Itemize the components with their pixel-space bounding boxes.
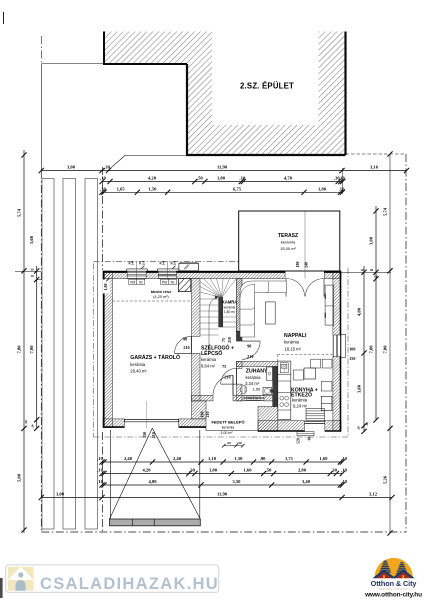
svg-text:,30: ,30 [189, 468, 195, 473]
svg-text:1,80 m²: 1,80 m² [224, 310, 236, 314]
svg-text:ZUHANY: ZUHANY [246, 369, 268, 375]
svg-text:2,80: 2,80 [298, 468, 307, 473]
svg-text:10: 10 [30, 274, 34, 278]
svg-text:3,16: 3,16 [370, 165, 379, 170]
svg-text:,10: ,10 [100, 187, 106, 192]
label GARAZS + TAROLO [130, 353, 180, 374]
shower WC fixture [240, 385, 246, 394]
shower room west wall upper [236, 362, 242, 369]
dashed boundary living-kitchen [277, 355, 333, 362]
svg-text:tároló rész: tároló rész [151, 289, 171, 294]
window dimension labels 100 150 east [349, 346, 355, 361]
svg-text:1,80: 1,80 [209, 468, 218, 473]
wardrobe on east wall [325, 285, 334, 325]
svg-text:,50: ,50 [197, 176, 203, 181]
svg-text:1,69: 1,69 [319, 456, 328, 461]
svg-text:240: 240 [132, 260, 135, 265]
east middle dimension chain (3,00 / 7,00) [369, 206, 379, 423]
dashed site line east of building [346, 153, 407, 155]
svg-text:,10: ,10 [341, 479, 347, 484]
neighbouring building thick outline [103, 32, 346, 156]
door hall-shower size labels 75 210 [222, 364, 231, 379]
terrace double door swing [286, 279, 324, 297]
svg-text:90: 90 [247, 344, 251, 349]
extension line from house top to chains [341, 271, 391, 273]
PM 90 tag garage window 2 [161, 279, 177, 284]
dining chair south-east [321, 381, 332, 391]
svg-text:kerámia: kerámia [224, 305, 236, 309]
svg-text:1,10: 1,10 [208, 456, 217, 461]
east window outer sill [341, 334, 346, 357]
driveway kerb bar [110, 519, 201, 526]
wall between garage and hall lower part [192, 353, 201, 401]
svg-text:3,00: 3,00 [369, 236, 374, 245]
east wall upper segment [333, 271, 341, 335]
svg-text:75: 75 [222, 338, 226, 342]
north wall middle segment [176, 271, 285, 279]
terrace door size labels 180 240 rotated [295, 262, 308, 269]
garage window 2 outer sill [157, 261, 179, 279]
svg-text:30: 30 [30, 268, 34, 272]
svg-text:90: 90 [183, 336, 187, 341]
svg-text:4,20: 4,20 [148, 176, 157, 181]
back door step labels 120 60 rotated [296, 437, 311, 444]
hall south wall mid segment [233, 395, 244, 401]
svg-text:210: 210 [205, 412, 210, 418]
svg-text:10: 10 [374, 275, 378, 279]
svg-text:100: 100 [349, 346, 355, 351]
label KAMRA [222, 300, 238, 315]
door garage-hall size labels 90 210 [183, 336, 190, 350]
svg-text:3,50: 3,50 [232, 479, 241, 484]
coffee table [265, 302, 275, 324]
stair direction arrow [209, 295, 219, 352]
door garage to hall with swing arc [175, 336, 192, 353]
label TERASZ [278, 233, 298, 251]
kitchen sink [280, 363, 288, 373]
door hall to shower with swing arc [221, 368, 237, 384]
dimension row 3 (1,65 / 1,50 / 6,75 / 1,80) [99, 187, 345, 195]
eaves dashed outline around house [93, 262, 348, 437]
svg-text:75: 75 [222, 364, 226, 369]
svg-text:7,00: 7,00 [369, 345, 374, 354]
storage height label 1,80 in west wall [103, 278, 110, 293]
PM 90 tag garage window 1 [129, 279, 145, 284]
svg-text:90: 90 [171, 280, 175, 284]
sofa corner unit [240, 281, 286, 337]
svg-text:3,00: 3,00 [67, 165, 76, 170]
svg-text:3,00 m²: 3,00 m² [220, 431, 233, 435]
svg-text:6,75: 6,75 [233, 187, 242, 192]
svg-text:,30: ,30 [331, 468, 337, 473]
dimension row 1 (3,00 / ,30 / 11,90 / 3,16) [39, 165, 409, 173]
svg-text:90: 90 [139, 280, 143, 284]
svg-text:1,80: 1,80 [103, 284, 108, 291]
svg-text:CSALADIHAZAK.HU: CSALADIHAZAK.HU [40, 575, 219, 593]
svg-text:kerámia: kerámia [201, 357, 217, 362]
svg-text:5,74: 5,74 [382, 207, 387, 216]
south wall garage east segment and porch west pier [179, 401, 206, 428]
PM 90 tag shower window [247, 396, 261, 401]
svg-text:210: 210 [247, 354, 253, 359]
svg-text:1,50: 1,50 [253, 387, 262, 392]
svg-text:11,90: 11,90 [217, 492, 228, 497]
label ZUHANY [245, 369, 268, 392]
driveway splay left leg [110, 428, 153, 519]
svg-text:GARÁZS + TÁROLÓ: GARÁZS + TÁROLÓ [130, 353, 180, 361]
dining chair north-east [322, 359, 332, 368]
svg-text:210: 210 [228, 337, 232, 343]
back door steps inside [306, 409, 325, 421]
otthon and city logo [364, 558, 422, 599]
label tarolo resz [151, 289, 171, 299]
svg-text:150: 150 [349, 356, 355, 361]
svg-text:4,70: 4,70 [284, 176, 293, 181]
svg-text:7,00: 7,00 [29, 345, 34, 354]
neighbouring building 2.SZ. EPULET hatched body [104, 30, 346, 155]
svg-text:www.otthon-city.hu: www.otthon-city.hu [364, 592, 422, 599]
driveway side edge east [199, 430, 201, 519]
dining chair north-west [311, 359, 321, 368]
svg-text:1,65: 1,65 [117, 187, 126, 192]
svg-text:,10: ,10 [31, 424, 35, 428]
svg-text:90: 90 [255, 397, 259, 401]
shower room west wall lower [236, 384, 242, 401]
svg-text:PM: PM [130, 280, 135, 284]
svg-text:kerámia: kerámia [281, 240, 296, 245]
stair straight treads [200, 299, 219, 335]
wall between garage and hall upper part [192, 279, 201, 337]
north wall between garage windows [146, 271, 158, 279]
svg-text:,30: ,30 [365, 422, 369, 426]
kitchen south wall west block [258, 407, 278, 432]
dimension row C (4,80 / 3,50 / 3,40) [97, 479, 347, 487]
kitchen hob burners [280, 396, 289, 406]
garage window 2 [158, 271, 176, 278]
vertical connector at right end of top rows [342, 168, 344, 194]
west dimension chain (5,74 / 7,80 / 5,00) [17, 150, 27, 533]
svg-text:,30: ,30 [24, 420, 28, 424]
stair newel wall [219, 297, 223, 327]
svg-text:Otthon & City: Otthon & City [371, 579, 418, 588]
east inner dimension chain (4,00 / 3,60) [357, 266, 367, 434]
svg-text:kerámia: kerámia [292, 398, 308, 403]
svg-text:,10: ,10 [97, 479, 103, 484]
driveway side edge west [109, 430, 111, 519]
east tiny ,10 ,30 labels [357, 268, 378, 430]
hall south wall east segment under shower [264, 395, 278, 401]
shower east wall / kitchen back wall [273, 367, 278, 407]
fence strip 2 [63, 179, 76, 530]
boundary dash-dot along house west face [102, 167, 104, 532]
label SZELFOGO + LEPCSO [201, 343, 234, 368]
svg-text:8,64 m²: 8,64 m² [201, 363, 216, 368]
svg-text:60: 60 [227, 441, 231, 445]
svg-text:11,90: 11,90 [217, 165, 228, 170]
svg-text:18,15 m²: 18,15 m² [285, 346, 302, 351]
svg-text:TERASZ: TERASZ [278, 233, 298, 239]
svg-text:60: 60 [307, 437, 311, 441]
garage door width labels 250 210 rotated [142, 432, 156, 439]
living room east window [333, 335, 340, 357]
dining table [304, 368, 316, 379]
svg-text:3,60: 3,60 [29, 235, 34, 244]
dimension row 2 (4,20 / ,50 / 1,80 / ,10 / 4,70) [99, 176, 345, 184]
svg-text:3,40: 3,40 [302, 479, 311, 484]
svg-text:3,00: 3,00 [56, 492, 65, 497]
north wall east segment [324, 271, 341, 279]
svg-text:,10: ,10 [100, 176, 106, 181]
label FEDETT BELEPO [211, 420, 244, 435]
svg-text:kerámia: kerámia [284, 340, 300, 345]
svg-text:FEDETT BELÉPŐ: FEDETT BELÉPŐ [211, 420, 244, 425]
svg-text:7,80: 7,80 [17, 345, 22, 354]
svg-text:15,00 m²: 15,00 m² [280, 246, 296, 251]
svg-text:,10: ,10 [341, 456, 347, 461]
svg-text:2.SZ. ÉPÜLET: 2.SZ. ÉPÜLET [240, 82, 294, 91]
svg-text:210: 210 [142, 260, 145, 265]
stair kamra side treads [223, 317, 237, 327]
svg-text:5,74: 5,74 [17, 208, 22, 217]
svg-text:kerámia: kerámia [246, 375, 262, 380]
svg-text:,10: ,10 [339, 187, 345, 192]
svg-text:29,40 m²: 29,40 m² [130, 368, 147, 373]
kamra door labels 75 210 rotated [222, 337, 232, 343]
svg-text:kerámia: kerámia [222, 426, 235, 430]
garage door leaf [124, 419, 178, 422]
svg-text:LÉPCSŐ: LÉPCSŐ [201, 349, 222, 357]
entry door size labels 100 210 rotated [200, 412, 211, 418]
svg-text:4,80: 4,80 [148, 479, 157, 484]
kitchen counter band [278, 361, 291, 419]
west tiny ,30 ,10 labels and extension lines [15, 268, 41, 429]
terrace outline [239, 211, 340, 271]
east outer dimension labels on long site line (5,74 / 7,80 / 5,26) [382, 207, 392, 484]
svg-text:2,40: 2,40 [173, 456, 182, 461]
svg-text:9,24 m²: 9,24 m² [293, 404, 308, 409]
dining chair west [294, 370, 304, 380]
svg-text:,10: ,10 [341, 468, 347, 473]
label NAPPALI [284, 333, 307, 351]
svg-text:1,80: 1,80 [217, 176, 226, 181]
svg-text:210: 210 [183, 345, 189, 350]
svg-text:NAPPALI: NAPPALI [284, 333, 307, 339]
plot boundary dash-dot east [405, 154, 407, 532]
svg-text:210: 210 [151, 432, 156, 438]
label KONYHA + ETKEZO [291, 387, 318, 408]
north wall west segment (garage) [103, 271, 127, 279]
back door outside step [297, 432, 314, 436]
svg-text:2,40: 2,40 [124, 456, 133, 461]
svg-text:PM: PM [162, 280, 167, 284]
svg-text:7,80: 7,80 [382, 345, 387, 354]
svg-text:250: 250 [142, 432, 147, 438]
pillar on north wall [179, 262, 199, 271]
partition wall hall-living dark lintel [236, 331, 242, 341]
svg-text:,10: ,10 [339, 176, 345, 181]
partition wall hall-living upper [236, 279, 242, 332]
shower window to porch [244, 396, 264, 401]
small porch step dimension 60/120 [222, 441, 245, 448]
covered entry porch outline [206, 428, 258, 432]
east wall lower segment [333, 357, 341, 432]
svg-text:,30: ,30 [104, 165, 110, 170]
storage area dashed divider [113, 300, 192, 302]
svg-text:Szabadéntalálom a hasznos feat: Szabadéntalálom a hasznos featuos [377, 587, 409, 590]
svg-text:4,20: 4,20 [142, 468, 151, 473]
svg-text:10: 10 [360, 268, 364, 272]
shower tray [266, 367, 272, 380]
top-left margin mark [3, 12, 5, 24]
svg-text:120: 120 [296, 438, 300, 444]
svg-text:120: 120 [237, 441, 242, 445]
plot boundary dash-dot west [40, 36, 42, 532]
garage window 1 [127, 271, 146, 278]
stair winder treads fan [200, 279, 236, 298]
svg-text:,10: ,10 [239, 176, 245, 181]
kitchen south wall east segment [325, 421, 341, 432]
terrace center line [304, 212, 306, 279]
svg-text:3,24 m²: 3,24 m² [245, 381, 260, 386]
door hall-living size labels 90 210 [247, 344, 253, 360]
csaladihazak.hu house icon [8, 567, 34, 591]
svg-text:210: 210 [224, 375, 230, 380]
svg-text:180: 180 [295, 262, 300, 268]
svg-text:5,00: 5,00 [17, 473, 22, 482]
svg-text:,90: ,90 [260, 456, 266, 461]
svg-text:KAMRA: KAMRA [222, 300, 238, 305]
svg-text:kerámia: kerámia [130, 362, 146, 367]
svg-text:210: 210 [174, 260, 177, 265]
hall south wall west segment [192, 395, 214, 401]
svg-text:PM: PM [248, 397, 253, 401]
svg-text:1,80: 1,80 [318, 187, 327, 192]
driveway splay right leg [152, 428, 200, 519]
shower washbasin [263, 387, 273, 394]
plot boundary dash-dot south [41, 531, 406, 533]
kitchen south wall west segment [258, 421, 305, 432]
door hall to living with swing arc [242, 341, 260, 359]
kitchen tall cabinet [321, 396, 332, 410]
svg-text:3,12: 3,12 [369, 492, 378, 497]
back door leaf [305, 421, 325, 423]
window size labels above garage window 1 [128, 260, 145, 268]
dimension row A (2,40 / 2,40 / 1,10 / 1,50 / ,90 / 1,71 / 1,69) [97, 456, 347, 464]
entry door with swing arc [213, 375, 233, 395]
kerb line left of building with diagonal [109, 156, 187, 170]
fence strip 3 [85, 179, 98, 530]
svg-text:240: 240 [163, 260, 166, 265]
window size labels above garage window 2 [160, 260, 177, 268]
west inner dimension chain (3,60 / 7,00) [29, 235, 39, 431]
svg-text:,10: ,10 [97, 456, 103, 461]
svg-text:4,00: 4,00 [357, 307, 362, 316]
long site line east x390 [389, 154, 391, 533]
svg-text:(4,20 m²): (4,20 m²) [153, 295, 169, 299]
shower room north wall [236, 362, 277, 367]
svg-text:1,71: 1,71 [285, 456, 294, 461]
west wall [103, 271, 113, 428]
chimney block in garage [178, 279, 190, 292]
svg-text:1,60: 1,60 [243, 468, 252, 473]
svg-text:5,26: 5,26 [382, 475, 387, 484]
dark edge mark bottom left [0, 578, 3, 598]
svg-text:3,60: 3,60 [357, 384, 362, 393]
site line from building corner to west [41, 63, 104, 65]
svg-text:1,50: 1,50 [234, 456, 243, 461]
svg-text:1,50: 1,50 [148, 187, 157, 192]
south wall garage west segment [103, 419, 124, 428]
svg-text:100: 100 [200, 412, 205, 418]
svg-text:240: 240 [304, 262, 309, 268]
fence strip 1 [42, 179, 54, 530]
csaladihazak.hu watermark logo box [6, 565, 219, 593]
svg-text:30: 30 [370, 268, 374, 272]
svg-text:,10: ,10 [97, 468, 103, 473]
garage center guide line [146, 401, 148, 428]
dimension row D (3,00 / 11,90 / 3,12) [39, 492, 395, 500]
svg-text:,10: ,10 [357, 426, 361, 430]
garage window 1 outer sill [126, 261, 147, 279]
svg-text:,50: ,50 [266, 468, 272, 473]
dimension row B (4,20 / ,30 / 1,80 / 1,60 / ,50 / 2,80) [97, 468, 347, 476]
